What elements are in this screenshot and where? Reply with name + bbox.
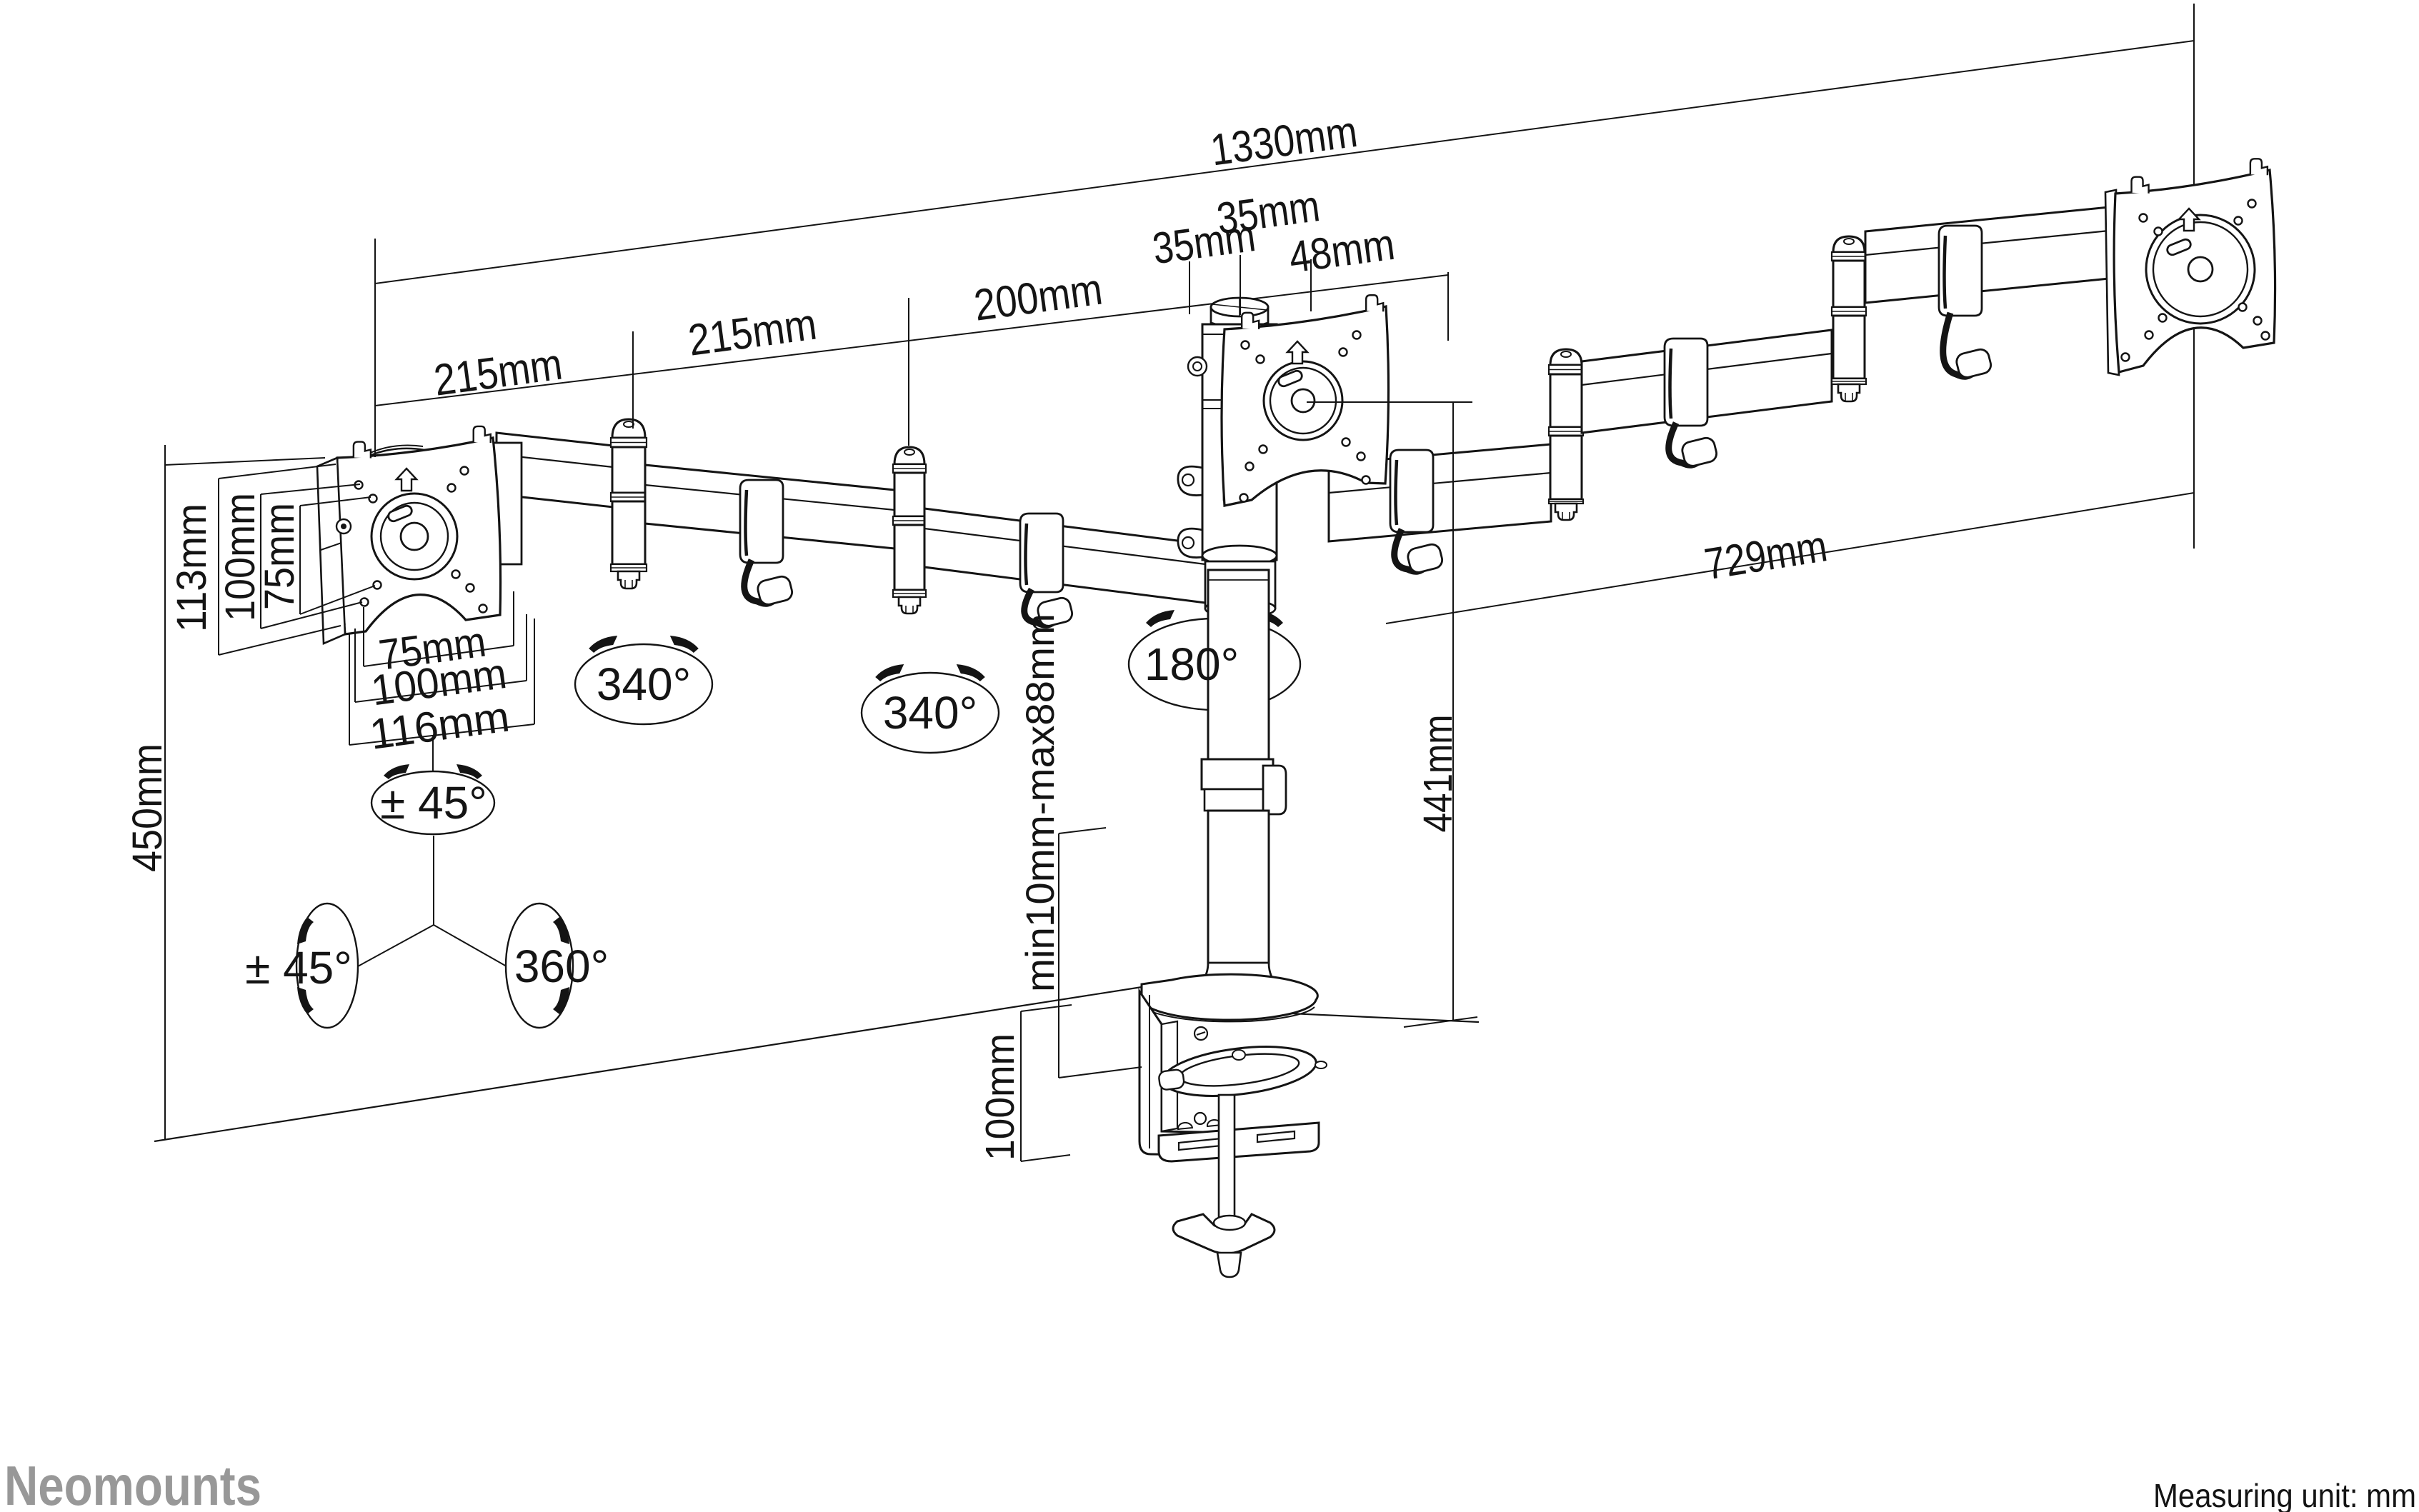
right VESA plate: lock slot: [2166, 238, 2193, 256]
rotation symbol 340° B: [862, 673, 999, 753]
left plate dim 100mm horizontal: [355, 681, 527, 702]
svg-text:± 45°: ± 45°: [380, 777, 487, 828]
joint 1 (340° swivel): [612, 419, 645, 438]
svg-text:Measuring unit: mm: Measuring unit: mm: [2153, 1477, 2416, 1512]
svg-text:180°: 180°: [1144, 639, 1239, 690]
right VESA plate: screw holes: [2140, 214, 2148, 222]
pad side screw: [1315, 1061, 1327, 1068]
centre VESA plate: circles: [1264, 361, 1342, 440]
min10-max88 ticks: [1059, 828, 1106, 833]
dimension line 441mm: leader: [1307, 401, 1472, 403]
lower arm segment C (200mm): [924, 509, 1211, 604]
centre pole: upper housing: [1202, 324, 1277, 560]
cable clip on segment U3: [1939, 226, 1982, 316]
pole side screws: [1188, 357, 1207, 376]
svg-text:min10mm-max88mm: min10mm-max88mm: [1017, 614, 1062, 992]
cable clip on segment U1: [1390, 450, 1433, 532]
extension line 48mm right: [1447, 272, 1449, 341]
extension line 35mm left: [1189, 261, 1190, 314]
left plate dim 75mm vertical: [299, 506, 301, 614]
clamp lower jaw: [1159, 1123, 1319, 1161]
right VESA plate: circles: [2146, 215, 2255, 324]
cable clip on segment U2: [1665, 339, 1707, 426]
upper arm segment U3: [1865, 207, 2109, 303]
svg-text:75mm: 75mm: [256, 503, 303, 610]
cable clip on segment C: [1020, 514, 1063, 592]
rotation symbol 360°: [506, 903, 573, 1028]
pole base flare: [1187, 963, 1289, 1000]
pole housing bottom cap: [1202, 546, 1277, 566]
left plate dim 75mm horizontal: [364, 646, 514, 666]
extension line 35mm mid: [1240, 255, 1241, 315]
clamp screw shaft: [1219, 1095, 1235, 1218]
rotation symbol 180°: [1129, 619, 1300, 710]
upper arm segment U1: [1329, 444, 1551, 541]
dimension line 450mm: [164, 445, 166, 1140]
left VESA plate: lock slot: [387, 504, 414, 523]
pole tube: [1208, 570, 1269, 759]
clamp C-bracket: [1139, 991, 1243, 1156]
dimension line 1330mm: [375, 41, 2194, 284]
pole lower tube: [1208, 811, 1269, 965]
clamp small hole: [1194, 1113, 1206, 1124]
100mm clamp ticks: [1021, 1005, 1072, 1011]
rotation symbol ±45° (tilt): [371, 771, 494, 834]
svg-text:450mm: 450mm: [124, 744, 171, 872]
centre VESA plate: outline: [1222, 306, 1389, 506]
extension line: right end (under plates): [2193, 4, 2195, 549]
left plate tilt hinge detail: [361, 443, 469, 460]
rotation symbol ±45° (pivot): [296, 903, 358, 1028]
450mm top tick: [165, 458, 325, 465]
svg-text:340°: 340°: [597, 659, 691, 710]
extension line: left plate top (1330/215 start): [374, 239, 376, 457]
clamp T-knob: [1173, 1214, 1275, 1253]
pole clamp ears: [1178, 466, 1202, 495]
pole clamp front ears: [1224, 464, 1252, 501]
left plate side flange: [317, 458, 345, 644]
extension line 35mm right: [1310, 259, 1312, 311]
dimension line 729mm: [1386, 493, 2194, 624]
left VESA plate: circles: [371, 494, 457, 579]
left plate dim 116mm horizontal: [349, 724, 534, 745]
left plate tilt bracket: [477, 443, 522, 564]
extension line joint1: [632, 331, 634, 429]
desk-clamp top disc: [1142, 974, 1318, 1020]
dimension line 441mm: vertical: [1452, 402, 1454, 1021]
centre VESA plate: lock slot: [1277, 369, 1304, 388]
cable clip on segment B: [740, 480, 783, 563]
centre pole: top cap: [1211, 307, 1268, 328]
right plate bracket strip: [2105, 190, 2119, 375]
svg-text:Neomounts: Neomounts: [4, 1454, 261, 1512]
left VESA plate: screw holes: [355, 481, 363, 489]
joint 3 (340° swivel): [1550, 349, 1582, 365]
extension line joint2: [908, 298, 909, 446]
centre VESA plate: orientation arrow: [1287, 341, 1307, 364]
upper arm segment U2: [1582, 330, 1832, 433]
joint 2 (340° swivel): [894, 447, 924, 464]
svg-text:360°: 360°: [514, 941, 609, 992]
pole height collar with lever: [1202, 759, 1273, 789]
dimension min10-max88 vertical: [1058, 833, 1059, 1078]
disc screw: [1194, 1027, 1207, 1040]
dimension line 215/215/200 (under plates): [375, 275, 1448, 406]
right VESA plate: outline: [2114, 170, 2275, 372]
joint 4 (340° swivel): [1833, 236, 1865, 252]
flange bolt: [336, 519, 351, 534]
svg-text:441mm: 441mm: [1415, 715, 1461, 833]
left plate dim 100mm vertical: [260, 494, 261, 629]
desk top edge (right of clamp): [1260, 1012, 1479, 1022]
tilt diagram stem: [432, 737, 434, 771]
left plate dim 113mm vertical: [218, 479, 219, 655]
dimension 100mm clamp vertical: [1020, 1011, 1022, 1161]
centre VESA plate: screw holes: [1242, 341, 1250, 349]
left VESA plate: orientation arrow: [396, 469, 417, 491]
clamp oval pad: [1157, 1039, 1319, 1103]
desk top edge (left): [154, 987, 1142, 1141]
svg-text:113mm: 113mm: [169, 504, 215, 632]
dimension 441mm bottom tick: [1404, 1017, 1477, 1027]
svg-text:340°: 340°: [883, 687, 977, 739]
rotation symbol 340° A: [575, 644, 712, 724]
pole sleeve: [1205, 561, 1275, 609]
svg-text:± 45°: ± 45°: [245, 942, 352, 993]
svg-text:100mm: 100mm: [977, 1033, 1023, 1161]
right VESA plate: orientation arrow: [2179, 209, 2199, 231]
left VESA plate: outline: [337, 438, 501, 634]
lower arm segment A (215mm): [497, 433, 613, 507]
lower arm segment B (215mm): [645, 465, 894, 549]
